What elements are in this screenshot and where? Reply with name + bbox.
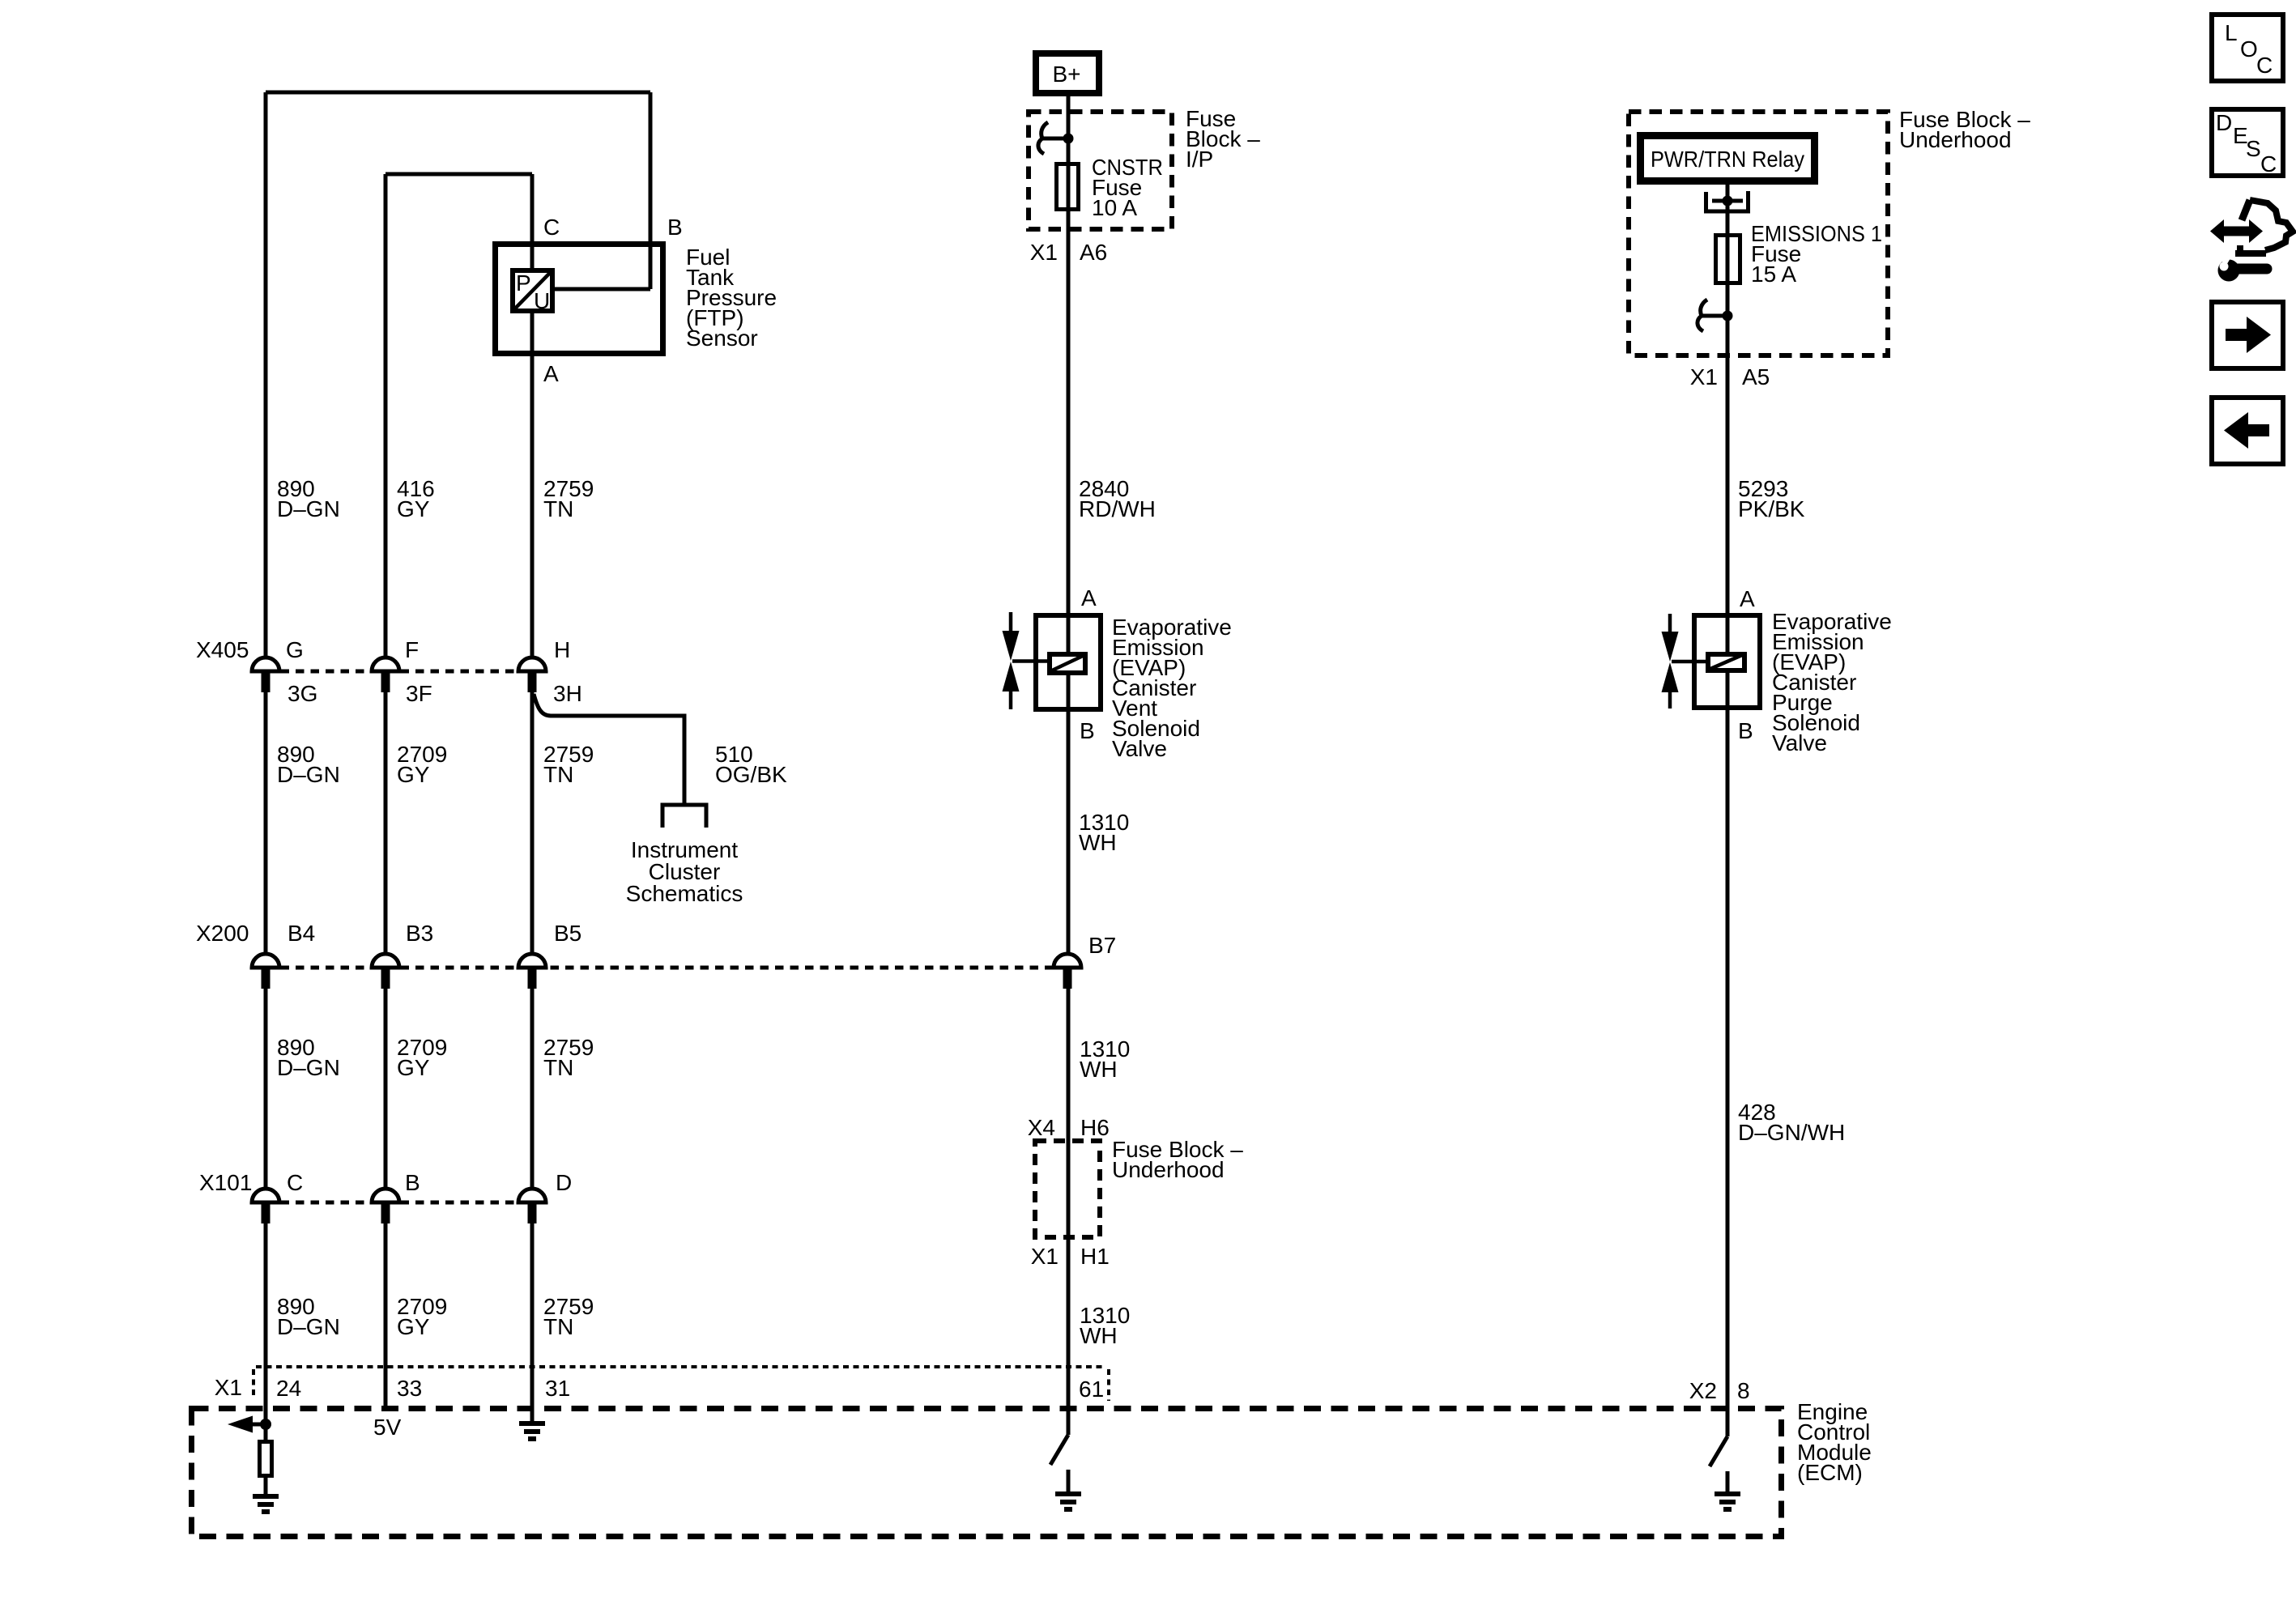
svg-text:Valve: Valve [1112, 736, 1167, 761]
wire label 2709 GY row2 [397, 742, 447, 787]
svg-text:31: 31 [545, 1376, 570, 1401]
svg-text:D–GN: D–GN [277, 496, 340, 521]
wire label 2840 RD/WH [1079, 476, 1156, 521]
svg-text:OG/BK: OG/BK [715, 762, 787, 787]
wire 510 OG/BK branch to instrument cluster [534, 694, 684, 805]
fuse block I/P internal contact hook [1038, 122, 1048, 154]
ground under resistor [253, 1494, 279, 1499]
svg-text:3H: 3H [553, 681, 582, 706]
label EMISSIONS 1 fuse [1751, 221, 1882, 287]
EVAP canister vent solenoid valve [1003, 612, 1101, 709]
fuse block underhood dashed box [1629, 112, 1888, 355]
svg-text:X1: X1 [1030, 240, 1058, 265]
CNSTR fuse symbol [1057, 164, 1079, 210]
svg-text:X101: X101 [199, 1170, 252, 1195]
svg-text:WH: WH [1080, 1057, 1118, 1082]
connector X405 dashed line [266, 670, 532, 674]
fuse block underhood pass-through dashed box [1035, 1141, 1100, 1237]
svg-text:A5: A5 [1742, 364, 1770, 389]
svg-text:F: F [405, 637, 419, 662]
fuse block I/P dashed box [1029, 112, 1172, 229]
svg-text:X405: X405 [196, 637, 249, 662]
wire label 890 D-GN row1 [277, 476, 340, 521]
svg-text:B+: B+ [1052, 62, 1080, 87]
connector X101 dashed line [266, 1201, 532, 1205]
svg-text:S: S [2246, 136, 2261, 161]
svg-text:3G: 3G [288, 681, 317, 706]
svg-text:H: H [554, 637, 570, 662]
svg-text:33: 33 [397, 1376, 422, 1401]
label connector X2 pin 8 [1689, 1378, 1750, 1403]
wire 890 D-GN top horizontal [266, 91, 650, 95]
PWR/TRN relay box [1641, 136, 1815, 181]
internal signal arrow [228, 1416, 266, 1433]
wire 890 D-GN vertical segment top [264, 92, 268, 657]
junction dot at CNSTR fuse [1063, 134, 1074, 144]
wire label 1310 WH seg3 [1080, 1303, 1130, 1348]
label connector X4 H6 [1028, 1115, 1110, 1140]
svg-text:61: 61 [1079, 1377, 1104, 1402]
wire label 890 D-GN row2 [277, 742, 340, 787]
wire FTP pin B horizontal into P/U [555, 287, 650, 291]
svg-text:8: 8 [1737, 1378, 1750, 1403]
svg-text:GY: GY [397, 1314, 430, 1339]
FTP sensor P/U symbol [513, 270, 552, 313]
svg-text:Schematics: Schematics [626, 881, 743, 906]
connector X200 pin B3 arc [372, 954, 399, 968]
svg-text:GY: GY [397, 496, 430, 521]
EVAP canister purge solenoid valve [1662, 614, 1761, 709]
svg-text:24: 24 [276, 1376, 301, 1401]
junction dot at relay contact [1723, 196, 1733, 206]
service info icon [2210, 200, 2293, 282]
wire 890 D-GN segment X405 to X200 [264, 691, 268, 954]
wire 2709 GY segment X405 to X200 [384, 691, 388, 954]
connector X101 pin D arc [518, 1189, 546, 1202]
svg-text:D–GN: D–GN [277, 762, 340, 787]
wire 2759 TN segment X405 to X200 [530, 691, 535, 954]
ground stem pin 61 [1067, 1470, 1071, 1494]
contact line at A5 [1702, 314, 1727, 318]
wire label 2759 TN row3 [543, 1035, 594, 1080]
connector X405 pin G arc [252, 657, 279, 671]
connector X200 pin B7 arc [1054, 954, 1081, 968]
ECM connector X1 right tick [1107, 1369, 1110, 1401]
svg-text:X1: X1 [1031, 1244, 1059, 1269]
connector X200 pin B5 stub [528, 968, 537, 989]
wire label 2709 GY row3 [397, 1035, 447, 1080]
svg-text:H1: H1 [1080, 1244, 1110, 1269]
wire label 428 D-GN/WH [1738, 1100, 1845, 1145]
B+ battery symbol box [1036, 53, 1099, 93]
connector X405 pin H arc [518, 657, 546, 671]
svg-text:X200: X200 [196, 921, 249, 946]
label engine control module [1797, 1399, 1872, 1485]
wire 2759 TN vertical segment top [530, 174, 535, 657]
svg-text:WH: WH [1080, 1323, 1118, 1348]
ECM switch on X2 pin 8 [1710, 1436, 1727, 1466]
wire label 510 OG/BK [715, 742, 787, 787]
wire label 2759 TN row4 [543, 1294, 594, 1339]
relay contact line [1712, 199, 1743, 203]
svg-text:TN: TN [543, 1055, 573, 1080]
svg-text:D–GN/WH: D–GN/WH [1738, 1120, 1845, 1145]
fuse block underhood internal contact hook [1698, 300, 1707, 331]
svg-text:A: A [1081, 585, 1097, 611]
junction dot at A5 contact [1723, 311, 1733, 321]
connector X405 pin H stub [528, 672, 537, 692]
svg-text:G: G [286, 637, 304, 662]
svg-text:B: B [405, 1170, 420, 1195]
wire 2759 TN segment X200 to X101 [530, 988, 535, 1189]
svg-text:Underhood: Underhood [1112, 1157, 1225, 1182]
ECM dashed box [192, 1409, 1782, 1537]
svg-text:TN: TN [543, 1314, 573, 1339]
connector X101 pin B stub [381, 1203, 390, 1223]
svg-text:15 A: 15 A [1751, 262, 1796, 287]
svg-text:GY: GY [397, 1055, 430, 1080]
svg-text:P: P [516, 270, 531, 296]
DESC icon box [2212, 109, 2283, 177]
wire resistor to ground [264, 1476, 268, 1496]
connector X200 pin B4 arc [252, 954, 279, 968]
svg-text:I/P: I/P [1186, 147, 1213, 172]
svg-text:C: C [543, 215, 560, 240]
ground under pin 31 wire [519, 1421, 545, 1426]
svg-text:B7: B7 [1088, 933, 1116, 958]
internal resistor [260, 1442, 272, 1476]
svg-text:A: A [543, 361, 559, 386]
connector X405 pin F arc [372, 657, 399, 671]
wire label 2709 GY row4 [397, 1294, 447, 1339]
svg-text:C: C [2260, 151, 2277, 177]
connector X101 pin D stub [528, 1203, 537, 1223]
svg-text:X1: X1 [1690, 364, 1718, 389]
wire 2709 GY segment X101 to ECM [384, 1223, 388, 1406]
svg-text:A6: A6 [1080, 240, 1107, 265]
FTP sensor name label [686, 245, 777, 351]
instrument cluster fork symbol [661, 803, 709, 828]
B+ power feed wire [1067, 96, 1071, 1435]
svg-text:GY: GY [397, 762, 430, 787]
back arrow icon [2212, 398, 2283, 464]
connector X200 pin B5 arc [518, 954, 546, 968]
wire 890 D-GN segment X101 to ECM [264, 1223, 268, 1440]
svg-text:C: C [287, 1170, 303, 1195]
LOC icon box [2212, 15, 2283, 81]
svg-text:RD/WH: RD/WH [1079, 496, 1156, 521]
svg-text:H6: H6 [1080, 1115, 1110, 1140]
connector X200 pin B4 stub [262, 968, 270, 989]
wire 2709 GY segment X200 to X101 [384, 988, 388, 1189]
label fuse block underhood pass-through [1112, 1137, 1243, 1182]
svg-text:X4: X4 [1028, 1115, 1055, 1140]
svg-text:Sensor: Sensor [686, 326, 758, 351]
ground under pin 61 [1055, 1491, 1081, 1496]
svg-text:A: A [1740, 586, 1755, 611]
connector X405 pin F stub [381, 672, 390, 692]
ECM connector X1 left tick [252, 1369, 255, 1397]
svg-text:WH: WH [1079, 830, 1117, 855]
connector X101 pin C stub [262, 1203, 270, 1223]
svg-text:B4: B4 [288, 921, 315, 946]
label connector X1 A6 [1030, 240, 1108, 265]
wire 2759 TN segment X101 to ECM ground [530, 1223, 535, 1422]
label CNSTR fuse [1092, 155, 1163, 220]
ECM connector X1 dotted line [256, 1365, 1106, 1368]
svg-text:D–GN: D–GN [277, 1055, 340, 1080]
relay contact bracket [1706, 191, 1749, 211]
svg-text:TN: TN [543, 496, 573, 521]
wire label 2759 TN row1 [543, 476, 594, 521]
svg-text:U: U [534, 288, 550, 313]
svg-text:X2: X2 [1689, 1378, 1717, 1403]
label connector X1 A5 [1690, 364, 1770, 389]
svg-text:TN: TN [543, 762, 573, 787]
relay output wire [1726, 185, 1730, 1436]
forward arrow icon [2212, 302, 2283, 368]
wire 416 GY top horizontal [386, 172, 532, 177]
label connector X1 H1 [1031, 1244, 1110, 1269]
svg-text:5V: 5V [373, 1415, 402, 1440]
wire label 890 D-GN row4 [277, 1294, 340, 1339]
svg-text:10 A: 10 A [1092, 195, 1137, 220]
svg-text:D: D [2216, 110, 2232, 135]
svg-text:B: B [1080, 718, 1095, 743]
wire label 416 GY row1 [397, 476, 435, 521]
wire label 1310 WH seg1 [1079, 810, 1129, 855]
label instrument cluster schematics [626, 837, 743, 906]
wire 416 GY vertical segment top [384, 174, 388, 657]
FTP sensor box [496, 245, 663, 354]
svg-text:D: D [556, 1170, 572, 1195]
svg-text:B: B [667, 215, 683, 240]
connector X200 pin B3 stub [381, 968, 390, 989]
svg-text:C: C [2256, 53, 2273, 78]
connector X101 pin B arc [372, 1189, 399, 1202]
wire FTP pin B vertical [649, 92, 653, 289]
connector X200 pin B7 stub [1063, 968, 1072, 989]
connector X405 pin G stub [262, 672, 270, 692]
wire 890 D-GN segment X200 to X101 [264, 988, 268, 1189]
ECM switch on pin 61 [1050, 1435, 1068, 1465]
svg-text:Valve: Valve [1772, 730, 1827, 755]
svg-text:3F: 3F [406, 681, 432, 706]
svg-text:O: O [2240, 36, 2258, 62]
svg-text:PWR/TRN Relay: PWR/TRN Relay [1651, 147, 1804, 172]
svg-text:B5: B5 [554, 921, 581, 946]
svg-text:(ECM): (ECM) [1797, 1460, 1863, 1485]
label fuse block underhood [1899, 107, 2030, 152]
connector X101 pin C arc [252, 1189, 279, 1202]
svg-text:B3: B3 [406, 921, 433, 946]
svg-text:PK/BK: PK/BK [1738, 496, 1805, 521]
label EVAP canister purge solenoid valve [1772, 609, 1892, 755]
svg-text:D–GN: D–GN [277, 1314, 340, 1339]
ground under X2 pin 8 [1715, 1491, 1740, 1496]
wire label 1310 WH seg2 [1080, 1036, 1130, 1082]
wire label 5293 PK/BK [1738, 476, 1805, 521]
fuse block I/P contact line [1043, 137, 1068, 141]
wire label 2759 TN row2 [543, 742, 594, 787]
svg-text:Underhood: Underhood [1899, 127, 2012, 152]
connector X200 dashed line [266, 966, 1068, 970]
label fuse block I/P [1186, 106, 1260, 172]
label EVAP canister vent solenoid valve [1112, 615, 1232, 761]
wire label 890 D-GN row3 [277, 1035, 340, 1080]
svg-text:X1: X1 [215, 1375, 242, 1400]
junction node on pin 24 wire [260, 1419, 271, 1430]
ground stem X2 pin 8 [1726, 1471, 1730, 1494]
svg-text:L: L [2225, 20, 2238, 45]
svg-text:B: B [1738, 718, 1753, 743]
EMISSIONS 1 fuse symbol [1716, 236, 1740, 283]
